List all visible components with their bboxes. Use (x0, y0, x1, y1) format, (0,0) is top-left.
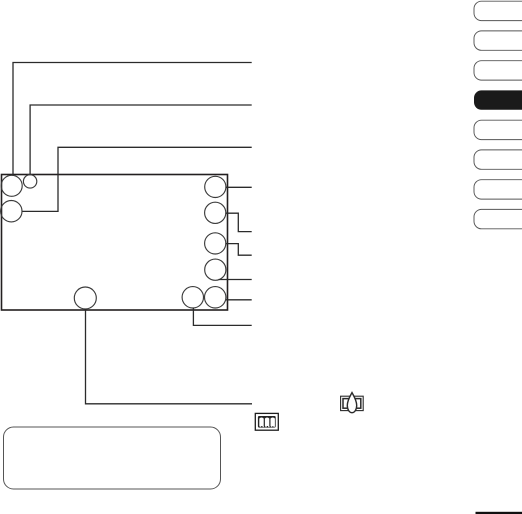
tab 3 (474, 61, 522, 80)
leader line R1 (226, 186, 252, 188)
leader line R3 (226, 244, 252, 256)
callout circle R4 (205, 259, 226, 280)
leader line 1 (earpiece) (13, 63, 252, 176)
tab 1 (474, 1, 522, 20)
callout circle R3 (205, 233, 226, 254)
callout circle R5 (205, 287, 226, 308)
triple-slot icon (multi tasking) (255, 413, 278, 430)
leader line R2 (226, 213, 252, 231)
tab 2 (474, 31, 522, 50)
callout circle bottom (74, 287, 96, 309)
tab 8 (474, 209, 522, 228)
leader line R4 (219, 279, 252, 281)
callout circle R1 (205, 176, 226, 197)
callout circle L2 (182, 287, 203, 308)
tab 5 (474, 120, 522, 139)
droplet icon (handwriting/stylus) (341, 393, 364, 413)
callout circle A (1, 175, 22, 196)
leader line R5 (226, 299, 252, 301)
callout circle R2 (205, 202, 226, 223)
leader line bottom (86, 309, 253, 404)
leader line L2 (193, 308, 251, 325)
callout circle B (23, 175, 36, 188)
tab 4 (active, black) (474, 90, 522, 109)
leader line 3 (left key) (22, 147, 252, 211)
tab 7 (474, 180, 522, 199)
callout circle C (1, 201, 22, 222)
leader line 2 (proximity sensor) (30, 105, 252, 175)
tab 6 (474, 150, 522, 169)
device outline (top view rectangle) (2, 175, 228, 311)
footer bar (476, 512, 522, 514)
note box (4, 427, 221, 489)
